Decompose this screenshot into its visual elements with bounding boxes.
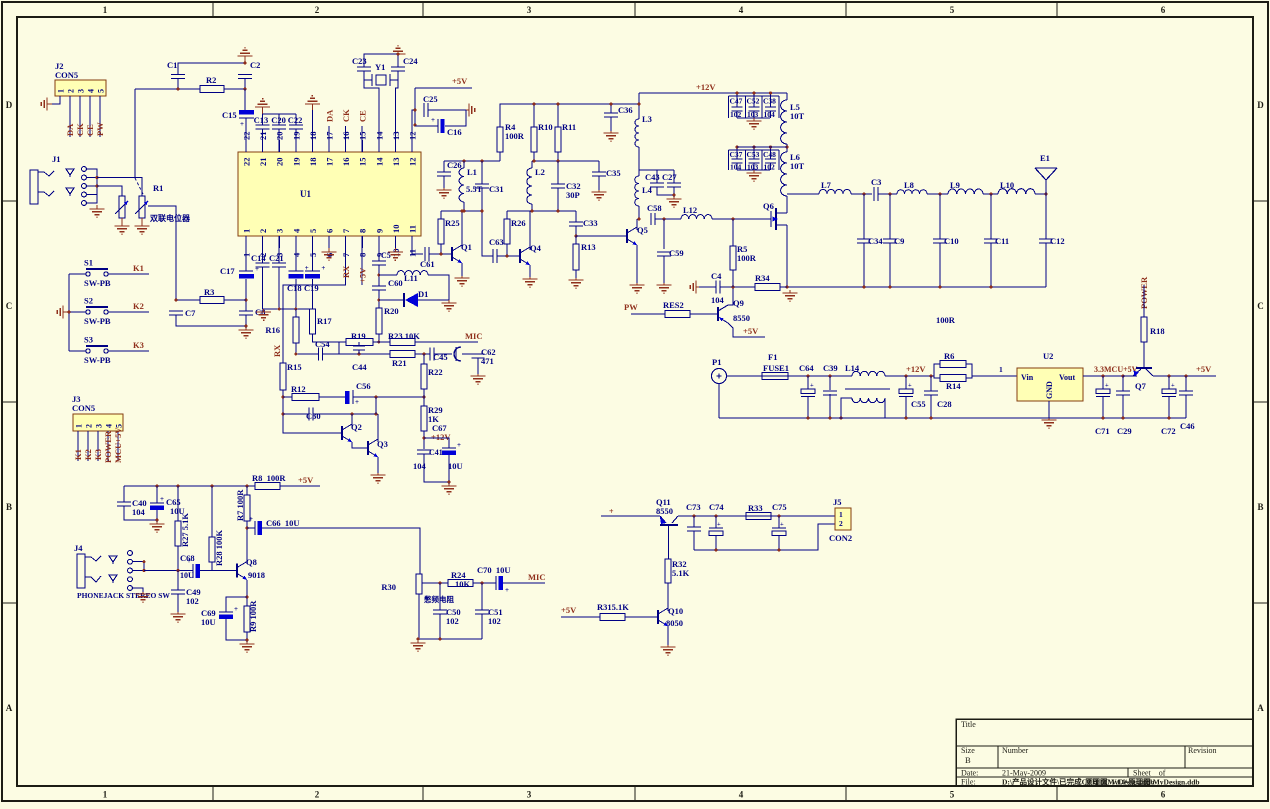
wire L14 right <box>885 375 934 377</box>
svg-text:C63: C63 <box>489 237 504 247</box>
wire C74 bottom <box>715 535 717 550</box>
svg-text:30P: 30P <box>566 190 580 200</box>
wire J1 tap4 <box>86 194 97 196</box>
wire L5-L6 <box>786 144 788 152</box>
capacitor C29 <box>1116 390 1130 392</box>
capacitor C70 <box>495 576 497 590</box>
junction J1 b <box>96 185 99 188</box>
capacitor C47 <box>732 106 743 108</box>
svg-text:C10: C10 <box>944 236 959 246</box>
wire C66 long <box>262 528 420 574</box>
wire R32 top <box>668 526 670 560</box>
wire J4 bottom <box>132 588 143 592</box>
junction R13 top <box>575 235 578 238</box>
ground caps rail <box>263 309 265 312</box>
wire C68-Q8 <box>200 570 237 572</box>
wire R14 left <box>934 376 940 378</box>
wire C34 bottom <box>863 243 865 287</box>
ground switches <box>63 311 69 313</box>
svg-text:Q8: Q8 <box>246 557 257 567</box>
wire L1 top <box>463 161 465 168</box>
wire R23 right <box>415 341 478 343</box>
svg-text:+: + <box>240 120 244 128</box>
svg-text:J4: J4 <box>74 543 83 553</box>
capacitor C15 <box>239 110 254 115</box>
wire C16 left <box>415 125 438 127</box>
resistor R31 <box>600 614 625 621</box>
junction pot line <box>175 299 178 302</box>
capacitor C44 <box>353 345 365 347</box>
svg-text:RX: RX <box>272 344 282 357</box>
svg-text:L7: L7 <box>821 180 832 190</box>
svg-text:K1: K1 <box>73 449 83 460</box>
wire L8-L9 <box>927 193 948 195</box>
svg-text:C33: C33 <box>583 218 598 228</box>
capacitor C9 <box>883 238 897 240</box>
svg-text:1: 1 <box>103 790 108 800</box>
svg-text:CON5: CON5 <box>55 70 78 80</box>
svg-text:10K: 10K <box>455 579 471 589</box>
wire to pot <box>134 89 136 178</box>
svg-text:+: + <box>717 521 721 528</box>
connector P1 <box>712 369 727 384</box>
svg-text:C47: C47 <box>730 97 743 106</box>
svg-text:A: A <box>1257 703 1264 713</box>
wire C54 right <box>323 342 346 354</box>
resistor R7 <box>244 495 250 521</box>
svg-text:R10: R10 <box>538 122 553 132</box>
wire Q1 emitter <box>461 263 463 276</box>
resistor R34 <box>755 284 780 291</box>
wire C38 bottom <box>770 111 772 118</box>
svg-text:A: A <box>6 703 13 713</box>
wire out gnd rail <box>694 524 835 550</box>
wire C15-pin22 <box>245 118 247 152</box>
wire R16 top <box>295 309 297 317</box>
wire POWER stub <box>1143 285 1145 317</box>
svg-text:+12V: +12V <box>696 82 716 92</box>
svg-text:R1: R1 <box>153 183 163 193</box>
wire C22 bottom <box>295 129 297 152</box>
svg-text:+12V: +12V <box>431 432 451 442</box>
wire C23 bottom <box>363 71 365 80</box>
junction C73 top <box>693 515 696 518</box>
junction C16 <box>414 124 417 127</box>
wire R11 bottom <box>557 152 559 161</box>
wire L3-L4 <box>638 147 640 176</box>
wire C55 bottom <box>905 397 907 419</box>
svg-text:CON2: CON2 <box>829 533 852 543</box>
svg-text:L3: L3 <box>642 114 652 124</box>
ground bank1 <box>753 118 755 121</box>
svg-text:F1: F1 <box>768 352 777 362</box>
svg-text:S1: S1 <box>84 258 93 268</box>
wire Q4 collector <box>529 211 531 250</box>
wire C41 bottom <box>424 454 449 482</box>
svg-text:C35: C35 <box>606 168 621 178</box>
wire PW-RES2 <box>631 313 665 315</box>
svg-text:6: 6 <box>1161 5 1166 15</box>
junction C58 left <box>638 218 641 221</box>
svg-text:22: 22 <box>242 158 252 167</box>
wire S3 left <box>69 350 86 352</box>
wire R3 left <box>176 299 200 301</box>
capacitor C11 <box>984 238 998 240</box>
svg-text:C56: C56 <box>356 381 371 391</box>
svg-text:+: + <box>780 521 784 528</box>
wire C20 bottom <box>278 129 280 152</box>
wire C50 top <box>439 583 441 610</box>
junction mic gnd <box>417 638 420 641</box>
svg-text:RX: RX <box>341 265 351 278</box>
svg-text:10: 10 <box>391 225 401 234</box>
svg-text:Q5: Q5 <box>637 225 648 235</box>
svg-text:1: 1 <box>999 365 1003 374</box>
wire L14b right <box>884 398 886 418</box>
svg-text:R30: R30 <box>381 582 396 592</box>
wire R5 bottom <box>732 270 734 287</box>
resistor R26 <box>504 219 510 244</box>
svg-text:R11: R11 <box>562 122 576 132</box>
resistor R17 <box>309 309 315 334</box>
wire C63-Q4 <box>497 255 520 257</box>
wire L7-C3 <box>851 193 872 195</box>
wire J4 taps <box>132 562 144 571</box>
capacitor C17 <box>239 270 253 272</box>
junction C55 top <box>905 375 908 378</box>
svg-text:POWER: POWER <box>103 430 113 463</box>
svg-text:11: 11 <box>408 225 418 233</box>
wire C61-Q1 <box>429 253 452 255</box>
svg-text:C53: C53 <box>747 150 760 159</box>
junction L3 top <box>638 103 641 106</box>
ground D1 <box>448 300 450 303</box>
svg-text:R315.1K: R315.1K <box>597 602 629 612</box>
transistor Q2 <box>341 426 343 440</box>
wire C9 top <box>889 194 891 239</box>
resistor R1a <box>119 196 125 218</box>
wire C65 top <box>156 486 158 503</box>
resistor R23 <box>390 339 415 346</box>
svg-text:C60: C60 <box>388 278 403 288</box>
capacitor C5 <box>372 260 386 262</box>
wire C30 right <box>313 413 376 415</box>
capacitor C59 <box>657 251 671 253</box>
svg-text:C41: C41 <box>429 448 443 457</box>
svg-text:8050: 8050 <box>666 618 683 628</box>
svg-text:CE: CE <box>85 124 95 136</box>
svg-text:C61: C61 <box>420 259 435 269</box>
wire L3 column <box>638 93 640 119</box>
ground pin18 <box>311 104 313 110</box>
svg-text:U1: U1 <box>300 189 311 199</box>
junction L2 bottom <box>531 210 534 213</box>
capacitor C73 <box>687 526 701 528</box>
svg-text:+: + <box>431 116 435 124</box>
junction C46 top <box>1185 375 1188 378</box>
wire C31 v <box>481 161 483 184</box>
svg-text:+5V: +5V <box>1196 364 1212 374</box>
svg-text:2: 2 <box>315 790 320 800</box>
resistor R5 <box>730 246 736 270</box>
wire R11 top <box>557 104 559 127</box>
svg-text:C39: C39 <box>823 363 838 373</box>
ground mic rail <box>417 641 419 643</box>
capacitor C40 <box>117 501 131 503</box>
wire pin CK <box>345 126 347 152</box>
svg-text:Date:: Date: <box>961 769 978 778</box>
capacitor C20 <box>272 124 286 126</box>
ground pin10 <box>394 248 396 252</box>
wire Q6 source <box>786 225 788 287</box>
wire J3 pin4 <box>107 431 109 461</box>
transistor Q5 <box>626 229 628 243</box>
inductor L1 <box>459 168 464 202</box>
svg-text:C44: C44 <box>352 362 367 372</box>
ground C36 <box>610 131 612 133</box>
wire pin18 <box>311 110 313 152</box>
svg-text:C48: C48 <box>763 150 776 159</box>
svg-text:Q3: Q3 <box>377 439 388 449</box>
wire R27 top <box>177 486 179 521</box>
junction C58-L12 <box>663 218 666 221</box>
wire P1-F1 <box>727 375 763 377</box>
wire L1 bottom <box>463 202 465 211</box>
wire R4 top <box>500 104 639 127</box>
junction L1 bottom <box>463 210 466 213</box>
wire C12 bottom <box>1045 243 1047 287</box>
wire rail mid <box>441 210 482 212</box>
wire J3 pin2 <box>87 431 89 461</box>
wire R27 bottom <box>177 546 179 571</box>
ground C65 <box>156 522 158 524</box>
wire bank2 rail <box>737 146 787 148</box>
svg-text:Vout: Vout <box>1059 373 1075 382</box>
inductor L9 <box>948 189 983 194</box>
wire C75 bottom <box>778 535 780 550</box>
capacitor C63 <box>492 249 494 263</box>
junction C28 top <box>930 375 933 378</box>
ground C26 <box>443 188 445 190</box>
inductor L2 <box>527 168 532 204</box>
svg-text:+: + <box>160 495 164 503</box>
resistor R3 <box>200 297 224 304</box>
svg-text:10T: 10T <box>790 111 805 121</box>
svg-text:C55: C55 <box>911 399 926 409</box>
resistor R4 <box>497 127 503 152</box>
junction Q4 base <box>506 255 509 258</box>
ic U2 <box>1017 368 1083 401</box>
svg-text:FUSE1: FUSE1 <box>763 363 789 373</box>
junction C28 gnd <box>930 417 933 420</box>
wire C32 b <box>557 188 559 211</box>
wire J4-C68 <box>144 570 193 572</box>
svg-text:16: 16 <box>341 158 351 167</box>
svg-text:102: 102 <box>488 616 501 626</box>
svg-text:L11: L11 <box>404 273 418 283</box>
transistor Q6 <box>770 211 772 227</box>
capacitor C3 <box>873 187 875 201</box>
transistor Q10 <box>657 610 659 624</box>
junction D1 left <box>377 299 380 302</box>
junction C29 gnd <box>1122 417 1125 420</box>
junction switch bus <box>68 311 71 314</box>
svg-text:R16: R16 <box>265 325 280 335</box>
svg-text:C46: C46 <box>1180 421 1195 431</box>
wire C2 bottom <box>244 79 246 90</box>
svg-text:+: + <box>1105 382 1109 389</box>
wire C54-R21 <box>339 353 390 355</box>
wire cap rail <box>263 113 296 115</box>
svg-text:C3: C3 <box>871 177 881 187</box>
junction C39 gnd <box>829 417 832 420</box>
svg-text:+: + <box>187 557 191 565</box>
svg-text:L2: L2 <box>535 167 545 177</box>
svg-text:4: 4 <box>105 424 114 428</box>
junction R29 top <box>423 396 426 399</box>
svg-text:2: 2 <box>85 424 94 428</box>
junction L2 top <box>533 160 536 163</box>
svg-text:B: B <box>1257 502 1263 512</box>
svg-text:L4: L4 <box>642 185 653 195</box>
svg-text:Q7: Q7 <box>1135 381 1147 391</box>
junction C9 top <box>889 193 892 196</box>
wire pin5 <box>311 248 313 271</box>
capacitor C54 <box>318 348 320 361</box>
resistor R29 <box>421 406 427 431</box>
capacitor C14 <box>256 262 270 264</box>
wire C43 bottom <box>657 187 674 195</box>
wire R30 bottom <box>418 594 420 639</box>
svg-text:DA: DA <box>325 109 335 122</box>
wire L5 top <box>786 93 788 100</box>
capacitor C1 <box>171 74 185 76</box>
ground Q1 <box>461 276 463 278</box>
capacitor C12 <box>1039 238 1053 240</box>
svg-text:10T: 10T <box>790 161 805 171</box>
svg-text:B: B <box>6 502 12 512</box>
svg-text:C64: C64 <box>799 363 814 373</box>
svg-text:C22: C22 <box>288 115 303 125</box>
capacitor C27 <box>667 182 681 184</box>
svg-text:3: 3 <box>77 89 86 93</box>
svg-text:3.3MCU+5V: 3.3MCU+5V <box>1094 365 1138 374</box>
ground bank2 <box>753 170 755 173</box>
capacitor C22 <box>289 124 303 126</box>
capacitor bank2 box <box>729 149 780 151</box>
wire C71 bottom <box>1102 397 1104 419</box>
wire C33 v <box>575 211 577 222</box>
wire Y1-pin14 <box>364 80 379 152</box>
svg-text:18: 18 <box>308 158 318 167</box>
wire C43 tap <box>639 169 674 171</box>
svg-text:R2: R2 <box>206 75 216 85</box>
capacitor C24 <box>391 66 405 68</box>
svg-text:D: D <box>1257 100 1264 110</box>
wire C75 top <box>778 516 780 528</box>
wire +5V-R31 <box>561 616 600 618</box>
svg-text:+: + <box>355 398 359 406</box>
wire R5 top <box>732 219 734 246</box>
capacitor C35 <box>592 171 606 173</box>
svg-text:5.1K: 5.1K <box>672 568 690 578</box>
wire C47 bottom <box>736 111 738 118</box>
resistor R25 <box>438 219 444 244</box>
junction C64 gnd <box>807 417 810 420</box>
wire S1 right <box>108 273 149 275</box>
wire pin3 <box>278 248 280 263</box>
title block <box>956 719 1253 786</box>
wire C9 bottom <box>889 243 891 287</box>
wire R25 bottom <box>440 244 442 255</box>
wire C39 bottom <box>829 394 831 418</box>
wire J2 pin4 <box>89 96 91 137</box>
wire C3-L8 <box>878 193 897 195</box>
wire R6R14 left <box>934 364 940 376</box>
svg-text:6: 6 <box>325 229 335 233</box>
wire C50 bottom <box>439 614 441 639</box>
svg-text:+: + <box>457 441 461 449</box>
svg-text:DA: DA <box>65 123 75 136</box>
inductor L14b <box>852 398 885 403</box>
svg-text:8550: 8550 <box>733 313 750 323</box>
svg-text:E1: E1 <box>1040 153 1050 163</box>
capacitor C39 <box>823 390 837 392</box>
wire C1 top <box>178 63 245 75</box>
wire U2 out <box>1083 375 1137 377</box>
wire J3 pin1 <box>77 431 79 461</box>
svg-text:C59: C59 <box>669 248 684 258</box>
inductor L8 <box>897 190 927 194</box>
svg-text:C1: C1 <box>167 60 177 70</box>
wire J1 to R1 right <box>97 178 142 197</box>
connector J1 <box>30 170 38 204</box>
ground C27 <box>673 197 675 199</box>
junction Q3 collector <box>375 413 378 416</box>
junction C75 gnd <box>778 549 781 552</box>
junction C31 top <box>481 160 484 163</box>
wire rail L2 <box>532 160 599 162</box>
capacitor C69 <box>219 611 233 613</box>
capacitor C33 <box>569 221 583 223</box>
transistor Q7 <box>1136 367 1152 369</box>
junction Q2 collector <box>351 413 354 416</box>
capacitor C36 <box>604 112 618 114</box>
capacitor C68 <box>192 564 194 578</box>
wire L14b left <box>841 398 852 418</box>
wire C53 bottom <box>753 163 755 170</box>
svg-text:4: 4 <box>739 790 744 800</box>
ground R9 <box>246 642 248 644</box>
svg-text:C58: C58 <box>647 203 662 213</box>
junction rail p3 <box>278 308 281 311</box>
wire R26 bottom <box>506 244 508 256</box>
wire Q10 collector <box>667 583 669 611</box>
junction C55 gnd <box>905 417 908 420</box>
ground Q6 source <box>789 290 791 293</box>
svg-text:3: 3 <box>527 790 532 800</box>
wire bank1 bottom <box>737 117 770 119</box>
capacitor C60 <box>372 285 386 287</box>
wire Q8 emitter <box>246 580 248 606</box>
capacitor C10 <box>933 238 947 240</box>
wire C14 bottom <box>262 267 264 309</box>
junction C32 top <box>557 160 560 163</box>
wire bank2 bottom <box>737 169 770 171</box>
wire U2 gnd <box>1048 401 1050 418</box>
capacitor C26 <box>437 171 451 173</box>
svg-text:Vin: Vin <box>1021 373 1034 382</box>
